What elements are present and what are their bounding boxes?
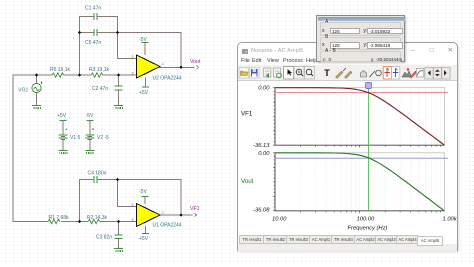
svg-text:C1 47n: C1 47n (85, 6, 101, 12)
battery V1 (59, 121, 68, 151)
svg-text:1.00k: 1.00k (443, 217, 458, 223)
wire C4 row (80, 179, 182, 181)
svg-text:Frequency (Hz): Frequency (Hz) (348, 226, 388, 232)
junction C3 tap (117, 220, 120, 223)
wire C2 to ground (118, 91, 120, 106)
svg-text:-5V: -5V (86, 113, 94, 119)
wire node A to R3 (80, 74, 92, 76)
wire C3 stem (118, 222, 120, 235)
svg-text:-36.08: -36.08 (253, 207, 270, 213)
svg-text:1: 1 (162, 62, 164, 66)
y ticks top panel (273, 88, 275, 146)
junction U1 output (180, 214, 183, 217)
capacitor C4 (94, 176, 97, 183)
svg-text:0.00: 0.00 (258, 151, 270, 157)
resistor R3 (91, 73, 103, 77)
resistor R5 (52, 73, 64, 77)
svg-text:C5 47n: C5 47n (85, 40, 101, 46)
svg-text:U1 OPA2244: U1 OPA2244 (153, 223, 182, 229)
wire feedback vertical U1 (180, 180, 182, 216)
svg-text:+5V: +5V (139, 90, 149, 96)
wire C5 row (80, 32, 182, 34)
svg-text:1: 1 (162, 211, 164, 215)
wire lower node vertical (79, 180, 81, 222)
grid verticals (301, 88, 441, 211)
ground V2 (85, 151, 94, 154)
op-amp U1 (137, 197, 161, 234)
svg-text:V1 5: V1 5 (70, 135, 81, 141)
wire U2 output (160, 66, 195, 68)
cursor info box (316, 15, 405, 62)
wire input vertical left (12, 75, 14, 222)
supply bar -5V U1 (142, 196, 149, 198)
resistor R1 (48, 219, 60, 223)
svg-text:2: 2 (132, 203, 134, 207)
wire VG1 to ground (36, 93, 38, 106)
junction lower node (78, 220, 81, 223)
svg-text:-5V: -5V (139, 189, 147, 195)
capacitor C1 (94, 13, 97, 20)
svg-text:Vout: Vout (190, 59, 201, 65)
svg-text:-36.13: -36.13 (253, 143, 270, 149)
svg-text:3: 3 (132, 218, 134, 222)
junction node A (78, 74, 81, 77)
svg-text:3: 3 (132, 72, 134, 76)
wire C3 to ground (118, 239, 120, 249)
svg-text:C4 180n: C4 180n (88, 171, 107, 177)
source VG1 (32, 82, 43, 93)
cursor handle (366, 83, 372, 89)
op-amp U2 (137, 43, 161, 88)
wire C2 stem (118, 75, 120, 86)
svg-text:C2 47n: C2 47n (92, 86, 108, 92)
ground VG1 (32, 106, 41, 109)
wire inverting branch U2 (118, 17, 137, 59)
wire lower input row (13, 221, 48, 223)
ground C2 (114, 106, 123, 109)
supply bar +5V U1 (142, 233, 149, 235)
y ticks bottom panel (273, 153, 275, 211)
wire inverting branch U1 (118, 180, 137, 207)
svg-text:R1 7,68k: R1 7,68k (49, 215, 70, 221)
resistor R2 (88, 219, 100, 223)
svg-text:VG1: VG1 (18, 88, 28, 94)
cursor B horizontal line blue (275, 157, 448, 159)
junction inv branch U2 (116, 31, 119, 34)
svg-text:VF1: VF1 (241, 111, 253, 118)
svg-text:0.00: 0.00 (258, 86, 270, 92)
svg-text:U2 OPA2244: U2 OPA2244 (153, 76, 182, 82)
svg-text:Vout: Vout (241, 178, 254, 185)
svg-text:+5V: +5V (57, 113, 67, 119)
junction C2 tap (117, 74, 120, 77)
svg-text:+5V: +5V (139, 236, 149, 242)
wire R5 to node A (65, 74, 80, 76)
all plot coords: x_local = x_global - 237, y_local = y_global - 80 (241, 83, 458, 232)
svg-text:V2 -5: V2 -5 (97, 135, 109, 141)
svg-text:10.00: 10.00 (272, 217, 287, 223)
wire feedback vertical U2 (180, 33, 182, 68)
wire upper input row (13, 74, 52, 76)
capacitor C3 (115, 235, 123, 239)
cursor vertical green line (368, 88, 370, 211)
supply bar -5V U2 (142, 42, 149, 44)
terminal Vout (197, 66, 199, 70)
svg-text:VF1: VF1 (190, 206, 200, 212)
wire U1 output (160, 214, 193, 216)
terminal VF1 (195, 213, 197, 217)
ground C3 (114, 249, 123, 252)
cursor A horizontal line red (275, 92, 448, 94)
wire node A vertical (79, 17, 81, 76)
wire R3 to opamp U2 (104, 74, 137, 76)
svg-text:100.00: 100.00 (357, 217, 376, 223)
capacitor C2 (115, 86, 123, 90)
curve VF1 dark red (275, 88, 444, 146)
axes (275, 88, 445, 211)
svg-text:R3 19,1k: R3 19,1k (89, 67, 110, 73)
panel frames (275, 88, 445, 146)
wire C1 row (80, 16, 118, 18)
svg-text:C3 82n: C3 82n (96, 235, 112, 241)
wire VG1 stem (36, 75, 38, 84)
wire R2 to opamp U1 (101, 221, 137, 223)
junction VG1 tap (35, 74, 38, 77)
plot svg (238, 81, 458, 234)
curve Vout dark green (275, 153, 444, 211)
wire R1 to node (62, 221, 80, 223)
plot window (237, 42, 458, 251)
axis labels (253, 86, 458, 232)
svg-text:R2 14,3k: R2 14,3k (87, 215, 108, 221)
svg-text:R5 19,1k: R5 19,1k (50, 67, 71, 73)
ground V1 (59, 151, 68, 154)
wire node to R2 (80, 221, 89, 223)
junction C4 row (116, 178, 119, 181)
battery V2 (85, 121, 94, 151)
svg-text:T: T (324, 68, 330, 78)
capacitor C5 (94, 29, 97, 36)
svg-text:2: 2 (132, 55, 134, 59)
junction U2 output (180, 66, 183, 69)
junction C5 row (78, 31, 81, 34)
x minor ticks top panel bottom (301, 145, 441, 147)
supply bar +5V U2 (142, 86, 149, 88)
x minor ticks bottom axis (301, 211, 441, 213)
svg-text:-5V: -5V (139, 37, 147, 43)
